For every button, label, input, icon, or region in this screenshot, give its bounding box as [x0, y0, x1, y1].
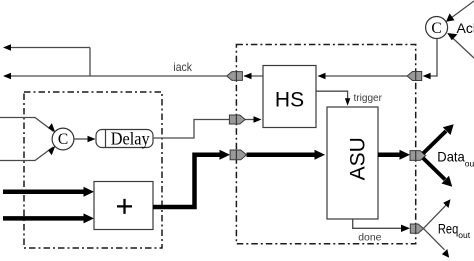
wire: Req out fan down [424, 229, 450, 258]
svg-text:iack: iack [173, 60, 192, 74]
svg-text:trigger: trigger [354, 93, 383, 104]
port marker Data out (right edge, thick) [410, 151, 426, 161]
thick input arrow 2 [3, 213, 94, 223]
wire: into C2 from top right [446, 1, 474, 22]
svg-text:C: C [431, 20, 441, 37]
adder block + [94, 182, 153, 230]
port marker Req out (right edge) [410, 224, 423, 233]
wire: into C2 from bottom right [447, 33, 474, 58]
svg-text:Ack: Ack [457, 20, 474, 36]
delay element Delay [96, 129, 153, 149]
label Req out [438, 221, 471, 240]
label iack [173, 60, 192, 74]
svg-text:HS: HS [275, 89, 304, 112]
label done [358, 231, 381, 243]
thick input arrow 1 [3, 187, 94, 197]
C-element C2 (top right) [426, 17, 448, 39]
thick wire: adder to ASU (data path) [153, 150, 325, 207]
C-element C1 [52, 128, 74, 150]
thick wire: ASU to Data out [378, 150, 410, 160]
wire: done (ASU to Req port) [353, 219, 410, 232]
wire: trigger (HS to ASU) [316, 91, 350, 106]
wire: top-left output with arrow [3, 44, 90, 76]
svg-text:ASU: ASU [347, 137, 370, 180]
wire: Delay to HS (request path) [153, 116, 262, 138]
port marker iack (left edge) [227, 72, 243, 81]
dashed box left (input stage) [24, 92, 162, 248]
thick wire: Data out fan up [423, 124, 454, 153]
label trigger [354, 93, 383, 104]
port marker data in (left edge, thick) [230, 150, 246, 160]
svg-text:C: C [58, 131, 68, 148]
wire: iack line (HS to left edge) [3, 73, 263, 80]
port marker request (left edge) [229, 115, 245, 124]
wire: C1 to Delay [74, 136, 96, 143]
wire: C2 down to HS (ack path) [318, 38, 438, 79]
thick wire: Data out fan down [423, 158, 452, 187]
wire: inputs to C-element C1 [0, 118, 55, 161]
block ASU [327, 107, 378, 219]
port marker ack (right edge) [407, 72, 422, 81]
block HS [263, 66, 316, 128]
svg-text:done: done [358, 231, 381, 243]
dashed box right (control stage) [236, 45, 415, 244]
label Ack [457, 20, 474, 36]
wire: Req out fan up [424, 199, 451, 228]
svg-text:Delay: Delay [111, 129, 150, 149]
label Data out [437, 149, 474, 169]
